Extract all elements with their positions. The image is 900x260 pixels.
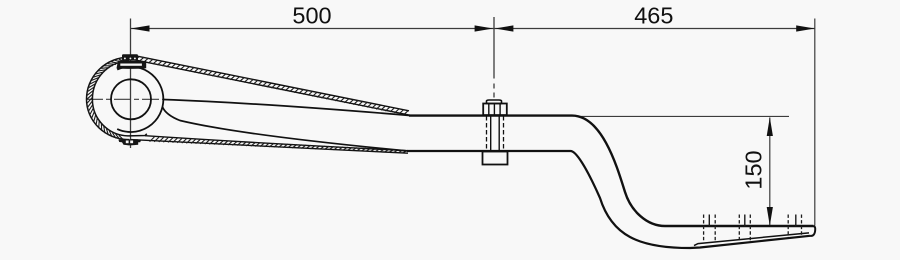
seat underside step line <box>694 233 809 246</box>
dimension line 500/465 <box>131 28 816 30</box>
bolt shank solid lines <box>491 116 500 152</box>
bolt hole hidden lines <box>486 116 488 151</box>
eye ring circle (bushing) <box>117 67 163 132</box>
eye top pad bracket <box>117 61 147 69</box>
bottom liner strip hatching <box>150 137 408 153</box>
seat hole 1 hidden lines <box>703 215 705 243</box>
arrowhead 150 bottom <box>767 207 773 226</box>
seat hole 3 hidden lines <box>787 215 789 238</box>
arrowhead left of 500 <box>131 25 150 31</box>
eye wrap inner end dish <box>129 134 147 136</box>
eye wrap outer arc <box>86 57 129 139</box>
eye wrap inner arc <box>92 61 129 136</box>
main leaf bottom edge taper curve <box>163 107 409 151</box>
extension line for 150 top <box>576 115 789 117</box>
bolt nut bottom <box>483 152 508 165</box>
bottom liner strip lower edge <box>131 140 408 154</box>
seat hole 2 hidden lines <box>738 215 740 241</box>
extension line right end <box>814 19 816 226</box>
main leaf top edge taper curve <box>164 100 411 116</box>
arrowhead left of 465 <box>495 25 514 31</box>
bolt head facets <box>489 104 500 116</box>
top liner strip hatching <box>135 56 409 115</box>
dimension line 150 <box>769 118 771 226</box>
extension line / eye centerline <box>130 19 132 149</box>
top liner strip lower edge <box>133 60 410 116</box>
svg-text:500: 500 <box>292 3 331 29</box>
leaf bottom edge + gooseneck inner + seat bottom <box>407 151 810 248</box>
leaf top edge + gooseneck outer + seat top surface <box>409 116 814 226</box>
eye horizontal centerline <box>86 98 163 100</box>
eye bore circle <box>111 79 151 119</box>
center bolt head <box>487 100 502 104</box>
arrowhead 150 top <box>767 117 773 136</box>
arrowhead right of 465 <box>796 25 815 31</box>
svg-text:150: 150 <box>741 150 767 189</box>
eye wrap hatching <box>87 59 130 141</box>
svg-text:465: 465 <box>634 3 673 29</box>
top liner strip upper edge <box>133 55 409 111</box>
extension line at center bolt <box>493 17 495 79</box>
eye bottom clip <box>118 139 141 145</box>
arrowhead right of 500 <box>475 25 494 31</box>
bottom liner strip upper edge <box>145 136 408 151</box>
eye top clip <box>122 54 138 60</box>
leaf tip end <box>810 226 815 236</box>
